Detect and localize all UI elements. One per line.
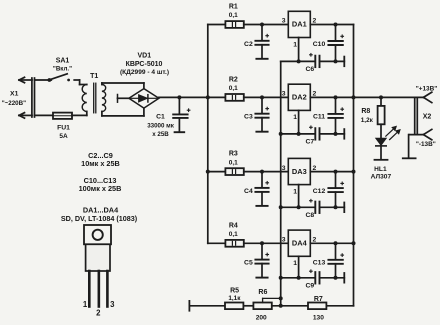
node C13 to adjust-wire junction (334, 276, 338, 280)
wire R5 to R6 (243, 305, 253, 307)
svg-text:C5: C5 (244, 260, 253, 267)
resistor R7 (308, 303, 326, 310)
label VD1 alt KD2999 (120, 69, 169, 76)
svg-text:100мк х 25В: 100мк х 25В (79, 184, 122, 193)
resistor R3 (225, 168, 243, 175)
pin 1 label DA4 (293, 260, 297, 267)
node C12 to adjust-wire junction (334, 205, 338, 209)
svg-text:C4: C4 (244, 188, 253, 195)
node adjust bus / DA4 adj junction (279, 276, 283, 280)
label C1 value (147, 122, 175, 129)
pin 1 label DA1 (293, 41, 297, 48)
wire input bus to R1 (208, 24, 226, 26)
label C1 voltage (152, 131, 169, 138)
op-amp regulator DA3 (288, 158, 310, 184)
svg-text:"-13В": "-13В" (416, 141, 436, 148)
svg-text:1: 1 (293, 41, 297, 48)
label R5 (230, 287, 239, 294)
label SA1 (56, 57, 70, 64)
label C1 (156, 114, 165, 121)
node C12 tap (334, 170, 338, 174)
LED HL1 emission arrows (386, 126, 400, 139)
pin 1 label (83, 300, 88, 309)
svg-text:5А: 5А (59, 133, 68, 140)
wire input bus to R3 (208, 171, 226, 173)
label T1 (90, 73, 98, 80)
label R3 value (229, 159, 238, 166)
bridge rectifier VD1 (129, 89, 159, 109)
bridge VD1 AC input stub (118, 95, 129, 103)
label C7 (305, 139, 314, 146)
node output bus / DA4 junction (352, 241, 356, 245)
connector X1 plug pin (top, phase) (19, 77, 32, 82)
label R6 (258, 289, 267, 296)
label C5 (244, 260, 253, 267)
label R4 value (229, 231, 238, 238)
svg-text:R2: R2 (229, 76, 238, 83)
svg-text:1: 1 (293, 260, 297, 267)
note C2...C9 value (81, 159, 120, 168)
svg-text:Т1: Т1 (90, 73, 98, 80)
label +13V (416, 85, 438, 92)
pin 2 label DA3 (313, 165, 317, 172)
svg-text:1,1к: 1,1к (228, 295, 241, 302)
capacitor C1 (173, 97, 190, 132)
wire C9 to common (320, 277, 345, 279)
capacitor C3 (255, 97, 268, 131)
svg-text:C12: C12 (313, 188, 326, 195)
svg-text:1: 1 (83, 300, 88, 309)
op-amp regulator DA2 (288, 84, 310, 110)
label DA1 (292, 20, 307, 29)
label C6 (305, 66, 314, 73)
svg-text:HL1: HL1 (374, 166, 387, 173)
wire output bus (353, 25, 355, 306)
wire DA3 pin 2 to output bus (310, 171, 353, 173)
svg-text:3: 3 (282, 165, 286, 172)
op-amp regulator DA4 (288, 230, 310, 256)
label R3 (229, 151, 238, 158)
pin 3 label DA2 (282, 91, 286, 98)
common terminal bar at C7 (343, 129, 345, 139)
note C2...C9 (88, 151, 113, 160)
svg-text:R8: R8 (361, 108, 370, 115)
capacitor C11 (328, 97, 343, 133)
label FU1 5A (59, 133, 68, 140)
node C2 tap (260, 23, 264, 27)
pin 1 label DA2 (293, 114, 297, 121)
wire input bus to R4 (208, 242, 226, 244)
label R2 value (229, 85, 238, 92)
common terminal bar left of R5 (188, 301, 190, 311)
connector X1 body (32, 78, 35, 117)
svg-text:"Вкл.": "Вкл." (53, 65, 72, 72)
label DA3 (292, 167, 307, 176)
note DA1...DA4 (83, 206, 119, 215)
svg-text:3: 3 (282, 91, 286, 98)
pin 2 label DA2 (313, 91, 317, 98)
label R5 value (228, 295, 241, 302)
wire T1 secondary top to bridge (102, 83, 144, 89)
label C4 (244, 188, 253, 195)
wire T1 secondary bottom to bridge (102, 108, 144, 116)
wire X1 to FU1 (35, 114, 54, 116)
connector X2 pin +13V (423, 92, 431, 102)
svg-text:C1: C1 (156, 114, 165, 121)
node input bus / R3 junction (206, 170, 210, 174)
svg-text:1: 1 (293, 114, 297, 121)
svg-text:X1: X1 (10, 90, 19, 97)
svg-text:FU1: FU1 (57, 125, 70, 132)
svg-text:R3: R3 (229, 151, 238, 158)
wire DA4 pin 1 to adjust wire (298, 256, 300, 278)
node DA2 pin 1 junction (297, 132, 301, 136)
svg-text:C2: C2 (244, 41, 253, 48)
label R2 (229, 76, 238, 83)
transformer T1 core (94, 83, 96, 113)
wire adjust bus to C6 (281, 60, 315, 62)
node R8 tap (379, 95, 383, 99)
svg-text:КВРС-5010: КВРС-5010 (126, 61, 163, 68)
label DA4 (292, 239, 308, 248)
package TO-220 tab (84, 225, 111, 244)
label C11 (313, 114, 325, 121)
node adjust bus / DA3 adj junction (279, 205, 283, 209)
pin 3 label DA3 (282, 165, 286, 172)
node C10 to adjust-wire junction (334, 59, 338, 63)
resistor R2 (225, 94, 243, 101)
label HL1 (374, 166, 387, 173)
node output bus / DA2 junction (352, 95, 356, 99)
svg-text:130: 130 (313, 315, 324, 322)
svg-text:2: 2 (96, 309, 101, 318)
wire adjust bus to C8 (281, 206, 315, 208)
label C10 (313, 41, 326, 48)
connector X2 body (415, 98, 418, 135)
label C13 (313, 260, 326, 267)
wire C7 to common (320, 133, 345, 135)
connector X1 plug pin (bottom, neutral) (19, 113, 32, 118)
node C3 tap (260, 95, 264, 99)
svg-text:C3: C3 (244, 114, 253, 121)
svg-text:C10: C10 (313, 41, 326, 48)
common terminal bar at C8 (343, 203, 345, 213)
svg-text:10мк х 25В: 10мк х 25В (81, 159, 120, 168)
svg-text:33000 мк: 33000 мк (147, 122, 175, 129)
svg-text:(КД2999 - 4 шт.): (КД2999 - 4 шт.) (120, 69, 169, 76)
capacitor C4 (255, 172, 268, 206)
note C10...C13 value (79, 184, 122, 193)
label R1 (229, 4, 238, 11)
node C11 tap (334, 95, 338, 99)
capacitor C6 (310, 54, 320, 68)
svg-text:АЛ307: АЛ307 (371, 174, 392, 181)
node adjust bus / DA2 adj junction (279, 132, 283, 136)
svg-text:C9: C9 (305, 283, 314, 290)
node C10 tap (334, 23, 338, 27)
svg-text:X2: X2 (423, 113, 432, 120)
capacitor C9 (310, 270, 320, 284)
svg-text:0,1: 0,1 (229, 231, 238, 238)
svg-text:DA3: DA3 (292, 167, 307, 176)
svg-text:3: 3 (282, 237, 286, 244)
wire C8 to common (320, 206, 345, 208)
wire DA4 pin 2 to output bus (310, 242, 353, 244)
svg-text:DA4: DA4 (292, 239, 308, 248)
svg-text:C6: C6 (305, 66, 314, 73)
pin 2 label (96, 309, 101, 318)
label X2 (423, 113, 432, 120)
label C9 (305, 283, 314, 290)
note C10...C13 (84, 176, 117, 185)
node C1 tap (177, 95, 181, 99)
resistor R4 (225, 240, 243, 247)
transformer T1 primary winding (82, 85, 87, 112)
label SA1 Vkl (53, 65, 72, 72)
wire SA1 to T1 primary (74, 80, 87, 85)
svg-text:х 25В: х 25В (152, 131, 169, 138)
note regulator types (61, 214, 138, 223)
label R6 value (256, 315, 267, 322)
node C11 to adjust-wire junction (334, 132, 338, 136)
pin 3 label DA1 (282, 18, 286, 25)
package TO-220 leg 3 (106, 271, 109, 307)
wire DA2 pin 2 to output bus (310, 96, 353, 98)
svg-text:DA1: DA1 (292, 20, 307, 29)
label C3 (244, 114, 253, 121)
wire DA1 pin 2 to output bus (310, 24, 353, 26)
node R6 wiper to adjust bus (279, 296, 283, 300)
wire X2 minus to common (409, 135, 424, 158)
fuse FU1 (53, 113, 72, 119)
capacitor C2 (255, 25, 268, 59)
wire input bus (207, 25, 209, 244)
svg-text:R6: R6 (258, 289, 267, 296)
node DA4 pin 1 junction (297, 276, 301, 280)
label R8 value (361, 117, 374, 124)
capacitor C13 (328, 243, 343, 277)
svg-text:0,1: 0,1 (229, 85, 238, 92)
resistor R6 (trimmer) (253, 298, 280, 309)
svg-text:R1: R1 (229, 4, 238, 11)
wire common bar to R5 (189, 305, 225, 307)
wire bridge output to bus (159, 96, 208, 98)
wire FU1 to T1 primary (72, 112, 87, 116)
wire DA1 pin 1 to adjust wire (298, 38, 300, 62)
resistor R8 (378, 97, 385, 124)
svg-text:C7: C7 (305, 139, 314, 146)
svg-text:C8: C8 (305, 212, 314, 219)
node DA3 pin 1 junction (297, 205, 301, 209)
svg-text:"~220В": "~220В" (2, 100, 26, 107)
label R4 (229, 222, 238, 229)
label ~220V (2, 100, 26, 107)
svg-text:C11: C11 (313, 114, 325, 121)
wire DA3 pin 1 to adjust wire (298, 185, 300, 208)
label VD1 (137, 53, 151, 60)
common terminal bar below X2 (403, 157, 416, 159)
label C12 (313, 188, 326, 195)
svg-text:R4: R4 (229, 222, 238, 229)
svg-text:0,1: 0,1 (229, 159, 238, 166)
wire adjust bus to C7 (281, 133, 315, 135)
svg-text:VD1: VD1 (137, 53, 151, 60)
wire DA2 pin 1 to adjust wire (298, 110, 300, 133)
pin 3 label (110, 300, 115, 309)
label R7 value (313, 315, 324, 322)
common terminal bar at C6 (343, 57, 345, 67)
resistor R1 (225, 21, 243, 28)
svg-text:"+13В": "+13В" (416, 85, 438, 92)
label X1 (10, 90, 19, 97)
capacitor C10 (328, 25, 343, 62)
pin 1 label DA3 (293, 188, 297, 195)
capacitor C12 (328, 172, 343, 208)
label FU1 (57, 125, 70, 132)
wire C6 to common (320, 60, 345, 62)
label R7 (314, 296, 323, 303)
capacitor C5 (255, 243, 268, 277)
wire R2 to DA2 pin 3 (244, 96, 288, 98)
node input bus / rectifier junction (206, 95, 210, 99)
transformer T1 secondary winding (102, 85, 106, 112)
common terminal bar at C9 (343, 273, 345, 283)
label DA2 (292, 93, 307, 102)
svg-text:1: 1 (293, 188, 297, 195)
wire adjust bus (280, 61, 282, 305)
package TO-220 body (86, 244, 110, 271)
svg-text:R5: R5 (230, 287, 239, 294)
svg-text:3: 3 (110, 300, 115, 309)
capacitor C8 (310, 199, 320, 213)
wire adjust bus to C9 (281, 277, 315, 279)
package TO-220 leg 1 (88, 271, 91, 307)
wire input bus to R2 (208, 96, 226, 98)
label HL1 type AL307 (371, 174, 392, 181)
svg-text:SD, DV, LT-1084 (1083): SD, DV, LT-1084 (1083) (61, 214, 138, 223)
label R8 (361, 108, 370, 115)
label -13V (416, 141, 436, 148)
wire R6 to R7 (272, 305, 308, 307)
wire output bus to X2 plus (354, 96, 424, 98)
svg-text:C13: C13 (313, 260, 326, 267)
svg-text:0,1: 0,1 (229, 12, 238, 19)
svg-text:2: 2 (313, 91, 317, 98)
pin 2 label DA1 (313, 18, 317, 25)
label C2 (244, 41, 253, 48)
wire R8 to HL1 (380, 124, 382, 138)
svg-text:200: 200 (256, 315, 267, 322)
wire X1 to SA1 (35, 79, 52, 81)
svg-text:1,2к: 1,2к (361, 117, 374, 124)
LED HL1 (376, 138, 386, 159)
label R1 value (229, 12, 238, 19)
pin 3 label DA4 (282, 237, 286, 244)
wire R1 to DA1 pin 3 (244, 24, 288, 26)
node adjust bus / bottom rail junction (279, 304, 283, 308)
node output bus / DA3 junction (352, 170, 356, 174)
wire R3 to DA3 pin 3 (244, 171, 288, 173)
pin 2 label DA4 (313, 237, 317, 244)
switch SA1 (48, 74, 71, 82)
common terminal bar below HL1 (375, 159, 388, 161)
resistor R5 (225, 303, 243, 310)
svg-text:R7: R7 (314, 296, 323, 303)
wire R4 to DA4 pin 3 (244, 242, 288, 244)
wire R7 to output bus (326, 305, 353, 307)
node C4 tap (260, 170, 264, 174)
svg-text:DA2: DA2 (292, 93, 307, 102)
op-amp regulator DA1 (288, 11, 310, 37)
package TO-220 leg 2 (98, 271, 101, 307)
label C8 (305, 212, 314, 219)
capacitor C7 (310, 126, 320, 140)
svg-text:SA1: SA1 (56, 57, 70, 64)
connector X2 pin -13V (423, 129, 431, 139)
svg-text:DA1...DA4: DA1...DA4 (83, 206, 119, 215)
node C5 tap (260, 241, 264, 245)
node C13 tap (334, 241, 338, 245)
svg-text:3: 3 (282, 18, 286, 25)
label VD1 type KBPC-5010 (126, 61, 163, 68)
node DA1 pin 1 junction (297, 59, 301, 63)
